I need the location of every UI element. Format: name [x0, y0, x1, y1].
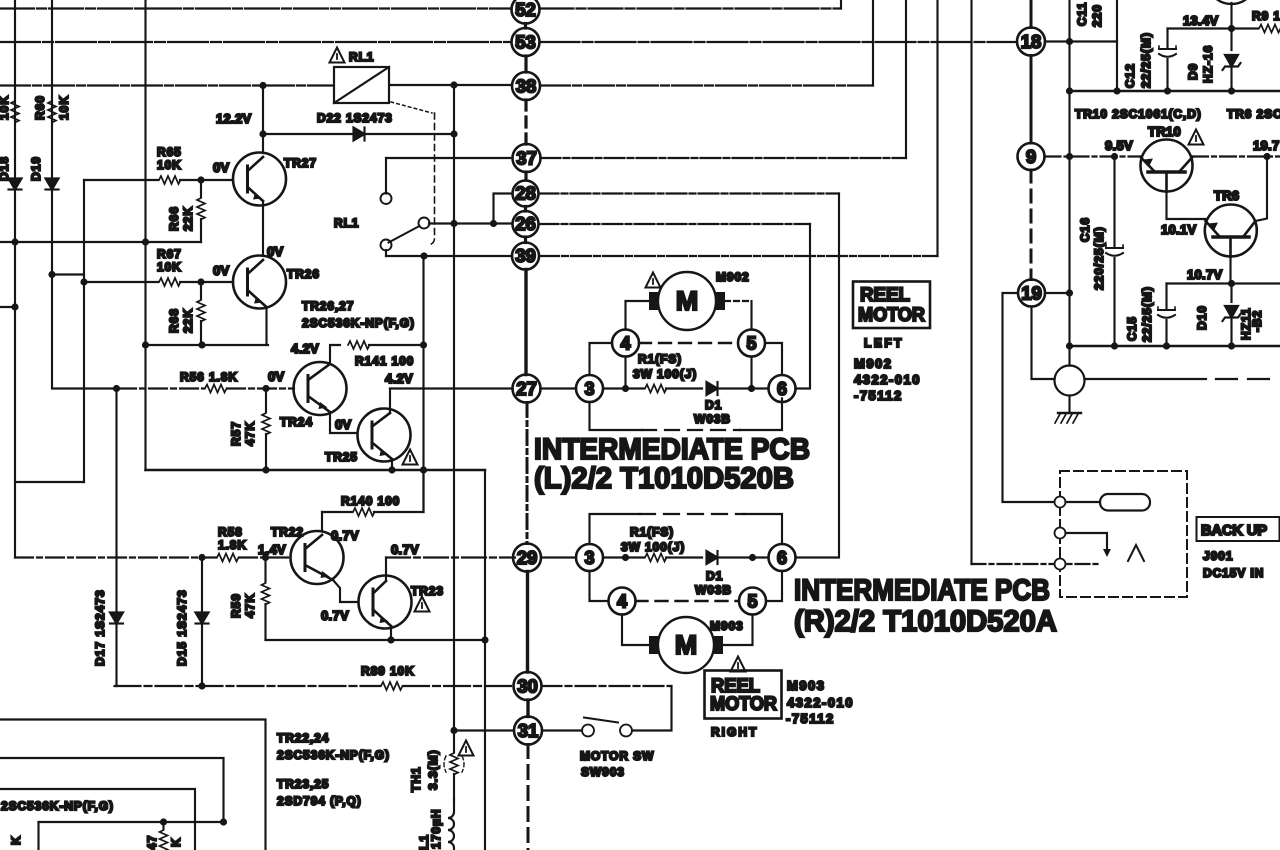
wire row 28 vertical down to R motor terminal 6 [796, 194, 840, 558]
wire x=423 vertical switch to R140 [422, 256, 424, 512]
wire vertical x=84 R65 rail down [83, 180, 85, 482]
svg-text:3W 100(J): 3W 100(J) [621, 540, 685, 554]
motor switch arm [584, 718, 618, 723]
svg-text:(L)2/2 T1010D520B: (L)2/2 T1010D520B [534, 462, 794, 495]
BACK UP label box [1197, 517, 1280, 541]
svg-text:-75112: -75112 [786, 711, 835, 726]
wire row 26 from relay common to circle 26 [429, 222, 513, 224]
svg-text:2SD794 (P,Q): 2SD794 (P,Q) [277, 794, 362, 808]
svg-text:TR23,25: TR23,25 [277, 777, 329, 791]
bus circle 38 [512, 72, 540, 100]
rail y=283.5 [1167, 282, 1280, 284]
svg-text:0.7V: 0.7V [321, 608, 349, 623]
bus circle 31 [514, 717, 542, 745]
svg-text:D10: D10 [1195, 305, 1209, 330]
junction dot 1069,346 [1066, 342, 1073, 349]
resistor R57 vertical [265, 389, 267, 413]
junction dot 202,345 [198, 341, 205, 348]
capacitor C12 [1159, 46, 1176, 57]
svg-text:13.4V: 13.4V [1183, 13, 1219, 28]
svg-text:-B2: -B2 [1250, 310, 1264, 332]
wire D1 to 6 (L) [717, 387, 769, 389]
resistor R1(FS) R [645, 554, 667, 562]
svg-text:M903: M903 [787, 678, 826, 693]
svg-text:D19: D19 [29, 156, 43, 181]
junction dot 625.5,557.5 [622, 554, 629, 561]
wire row 38 right to corner [540, 84, 873, 86]
bus link 38-37 dashed [524, 100, 527, 144]
svg-text:R141 100: R141 100 [355, 354, 414, 368]
wire row 37 from relay contact to circle 37 [386, 157, 513, 159]
wire D17 column [115, 389, 117, 687]
wire R1 to D1 (R) [666, 556, 702, 558]
svg-text:220: 220 [1090, 4, 1104, 27]
capacitor C15 upper lead [1165, 284, 1167, 309]
junction dot 625.5,388.5 [622, 385, 629, 392]
svg-text:3: 3 [584, 548, 594, 568]
resistor R1(FS) L [645, 385, 667, 393]
bus circle 53 [512, 28, 540, 56]
wire row 37 corner up to top edge [905, 0, 907, 158]
svg-text:MOTOR SW: MOTOR SW [580, 749, 654, 763]
wire row 27 TR25 collector corner to circle 27 [390, 387, 513, 389]
wire D9 to bus [1230, 66, 1232, 91]
bus circle 29 [513, 544, 541, 572]
junction dot 454,85 [450, 81, 457, 88]
wire rail y=242 R66 bottom [0, 241, 201, 243]
wire ground circle to earth [1068, 396, 1070, 414]
svg-text:TR22: TR22 [271, 525, 304, 539]
transistor TR27 [233, 153, 286, 206]
svg-text:10K: 10K [157, 260, 182, 274]
wire row 27 left dash segment [118, 387, 294, 389]
REEL MOTOR left label box [853, 282, 930, 329]
wire M902 right down to 5 [750, 301, 752, 330]
wire horizontal link y=482 [15, 481, 84, 483]
wire row 31 dot to circle 31 [455, 729, 514, 731]
row 9 wire to TR10 [1045, 155, 1142, 157]
warning triangle TH1 [459, 741, 474, 756]
svg-text:TR25: TR25 [325, 450, 358, 464]
resistor R141 [348, 341, 370, 349]
wire left column D18 [14, 0, 16, 558]
zener diode D9 [1223, 55, 1241, 70]
terminal circle 4 (R) [609, 588, 636, 615]
svg-text:LEFT: LEFT [864, 336, 904, 350]
junction dot 423,470 [420, 466, 427, 473]
wire row 38 corner up to top edge [872, 0, 874, 86]
capacitor C12 hang line [1166, 29, 1168, 48]
wire contact to row 37 [385, 158, 387, 194]
svg-text:1.8K: 1.8K [218, 538, 247, 552]
svg-text:TR10: TR10 [1148, 124, 1181, 139]
wire lower contact to row 39 [385, 250, 387, 256]
svg-text:4: 4 [617, 592, 627, 612]
wire 4 down to left brush (R) [622, 615, 649, 646]
junction dot 117,388.5 [113, 385, 120, 392]
svg-text:5: 5 [746, 334, 756, 354]
diode D17 [110, 613, 123, 624]
ground node circle [1055, 366, 1085, 396]
wire 4 down to row 27 [624, 357, 626, 389]
svg-text:9.5V: 9.5V [1105, 138, 1133, 153]
svg-text:47K: 47K [243, 421, 257, 446]
junction dot 1231.5,283.5 [1228, 280, 1235, 287]
terminal circle 5 (L) [738, 330, 765, 357]
svg-text:W03B: W03B [694, 412, 731, 426]
bypass bottom right (L) [740, 399, 782, 431]
junction dot 392,470 [388, 466, 395, 473]
svg-text:0.7V: 0.7V [391, 542, 419, 557]
svg-text:REEL: REEL [860, 285, 910, 306]
junction dot 1231.5,346 [1228, 342, 1235, 349]
wire row 52 right to corner [540, 7, 842, 9]
svg-text:0V: 0V [335, 417, 352, 432]
svg-text:W03B: W03B [695, 583, 732, 597]
wire TR25 emitter down to rail 470 [391, 459, 393, 470]
transistor cut at top edge [1207, 0, 1257, 4]
bottom-left box rail B [0, 758, 224, 822]
bus circle 39 [512, 243, 539, 270]
capacitor C16 [1106, 245, 1123, 256]
battery fuse element [1066, 501, 1101, 503]
warning triangle TR10 [1189, 130, 1204, 145]
motor M903 left brush [649, 636, 658, 654]
dotted mechanical link from relay [391, 102, 432, 113]
wire node 28 link down to row 26 [494, 194, 513, 225]
junction dot 1070,41.5 [1066, 38, 1073, 45]
wire TR23 collector up to row 29 [385, 558, 387, 582]
terminal circle 4 (L) [612, 330, 639, 357]
svg-text:TR6: TR6 [1214, 188, 1239, 203]
bus link 27-29 dash-dot [526, 403, 529, 544]
junction dot 752.5,557.5 [749, 554, 756, 561]
wire 5 down to row 27 [750, 357, 752, 389]
wire 19 down to ground circle [1032, 307, 1055, 380]
transistor TR24 [294, 362, 347, 415]
bottom-left rail D [39, 821, 224, 823]
junction dot 15,307 [11, 303, 18, 310]
svg-text:M: M [675, 630, 698, 660]
wire x=485 vertical down [484, 470, 486, 850]
wire row 27 circle 27 to circle 3 [541, 387, 577, 389]
bus circle 37 [513, 144, 541, 172]
thermistor TH1 side dashes [444, 756, 464, 772]
wire row 37 right to corner [541, 157, 907, 159]
dashed link 4-5 (L) [639, 342, 738, 344]
svg-text:9: 9 [1026, 146, 1036, 167]
wire top transistor to D9 [1230, 3, 1232, 50]
junction dot 1231.5,28.5 [1228, 25, 1235, 32]
warning triangle M902 [646, 273, 661, 288]
junction dot 15,242 [11, 238, 18, 245]
resistor at 163.5 bottom [162, 822, 164, 829]
relay switch NC contact upper [381, 193, 392, 204]
wire row 30 right to corner above motor switch [542, 685, 672, 687]
wire row 53 to circle 18 [540, 41, 1018, 43]
junction dot 1267,156.5 [1263, 153, 1270, 160]
capacitor C15 lower lead [1165, 320, 1167, 346]
diode D15 [196, 613, 209, 624]
wire TR27 emitter to TR26 collector [262, 201, 264, 255]
zener diode D10 [1230, 284, 1232, 303]
svg-text:0V: 0V [213, 263, 230, 278]
resistor R140 rail [322, 511, 352, 513]
svg-text:K: K [9, 835, 23, 845]
bus link 28-26 [524, 207, 527, 212]
resistor R67 rail [84, 281, 158, 283]
wire D1 to 6 (R) [717, 556, 769, 558]
warning triangle TR23 [415, 597, 430, 612]
resistor R58 rail row29 [217, 554, 239, 562]
bus link 26-39 [524, 237, 527, 243]
svg-text:C12: C12 [1123, 63, 1137, 88]
junction dot 424,256 [420, 252, 427, 259]
wire row 29 circle 29 to circle 3 [541, 556, 576, 558]
svg-text:3.3(M): 3.3(M) [426, 749, 440, 790]
wire TR25 collector up to row 27 [389, 389, 391, 414]
junction dot 202,557.5 [198, 554, 205, 561]
wire row 52 left bus [0, 7, 512, 9]
transistor TR22 [291, 531, 344, 584]
bypass top right (R) [744, 514, 782, 544]
bus link 39-27 solid [524, 270, 527, 375]
wire D22 rail y=134 [263, 133, 454, 135]
junction dot 1167.5,91 [1164, 87, 1171, 94]
svg-text:D15 1S2473: D15 1S2473 [175, 589, 189, 666]
svg-text:M902: M902 [716, 270, 750, 284]
relay RL1 coil diagonal [334, 67, 389, 103]
terminal circle 6 (R) [769, 544, 796, 571]
svg-text:TH1: TH1 [409, 766, 423, 792]
motor M902 right brush [716, 292, 725, 310]
junction dot 201,282 [197, 278, 204, 285]
svg-text:D17 1S2473: D17 1S2473 [93, 589, 107, 666]
terminal circle 5 (R) [739, 588, 766, 615]
rail y=640 TR23 emitter [266, 639, 486, 641]
junction dot 493.5,223.5 [490, 220, 497, 227]
svg-text:19: 19 [1021, 283, 1042, 304]
bus circle 52 [512, 0, 540, 24]
svg-text:10K: 10K [157, 158, 182, 172]
dashed mechanical link vertical [428, 113, 435, 245]
svg-text:22/25(M): 22/25(M) [1139, 32, 1153, 88]
wire M902 left brush to terminal 4 [626, 301, 650, 330]
svg-text:10.7V: 10.7V [1187, 267, 1223, 282]
svg-text:TR26: TR26 [287, 267, 320, 281]
bus circle 30 [514, 672, 542, 700]
wire 12.2V node vertical [262, 86, 264, 154]
svg-text:0V: 0V [268, 369, 285, 384]
wire TR10 collector down to TR6 base [1167, 192, 1206, 220]
wire TR24 collector up to R141 [330, 345, 340, 364]
right bus circle 18 [1017, 28, 1045, 56]
junction dot 202,686 [198, 682, 205, 689]
svg-text:M902: M902 [854, 356, 893, 371]
wire row 39 right to corner [539, 255, 938, 257]
dashed link 4-5 (R) [636, 600, 740, 602]
svg-text:30: 30 [517, 676, 538, 697]
svg-text:J901: J901 [1203, 549, 1233, 563]
wire row 38 left bus [0, 84, 332, 86]
wire row 52 corner up to top edge [840, 0, 842, 9]
bus link 37-28 [524, 172, 527, 180]
svg-text:DC15V IN: DC15V IN [1203, 566, 1264, 580]
bypass bottom (L) [590, 402, 643, 430]
resistor on left edge column [11, 101, 19, 123]
svg-text:R56 1.8K: R56 1.8K [180, 370, 238, 384]
svg-text:R1(FS): R1(FS) [630, 525, 674, 539]
power bus y=91 [1070, 90, 1280, 93]
svg-text:27: 27 [516, 378, 537, 399]
svg-text:52: 52 [515, 0, 536, 20]
junction dot 423,345 [420, 341, 427, 348]
junction dot 1166.5,346 [1163, 342, 1170, 349]
wire 3 to R1 (L) [603, 387, 644, 389]
J901 pin 1 [1055, 497, 1066, 508]
svg-text:TR23: TR23 [411, 584, 444, 598]
thermistor TH1 [453, 728, 455, 752]
wire above 18 [1030, 0, 1033, 28]
wire TR22 emitter to TR23 base [333, 580, 358, 602]
svg-text:170µH: 170µH [429, 808, 443, 849]
wire TR26 emitter down to rail [265, 307, 267, 345]
row 9 right segment [1192, 155, 1280, 157]
svg-text:53: 53 [515, 32, 536, 53]
svg-text:10K: 10K [0, 95, 11, 120]
svg-text:C15: C15 [1125, 316, 1139, 341]
bus link 53-38 [524, 56, 527, 72]
resistor R66 vertical [200, 180, 202, 197]
wire 3 down to 4 (R) [590, 571, 609, 601]
junction dot 1114.5,156.5 [1111, 153, 1118, 160]
junction dot 454,134 [450, 130, 457, 137]
inductor L1 coil [448, 800, 454, 850]
svg-text:D1: D1 [706, 569, 723, 583]
junction dot 265.5,557.5 [262, 554, 269, 561]
junction dot 263,134 [259, 130, 266, 137]
svg-text:4322-010: 4322-010 [854, 372, 921, 387]
motor M902 body [658, 272, 716, 330]
svg-text:28: 28 [515, 183, 536, 204]
svg-text:R9 1: R9 1 [1252, 9, 1280, 23]
wire row 39 corner up to top edge [936, 0, 938, 256]
transistor TR23 [359, 576, 412, 629]
bus link 18-9 [1030, 56, 1033, 144]
svg-text:RL1: RL1 [349, 50, 374, 64]
svg-text:31: 31 [518, 720, 539, 741]
svg-text:MOTOR: MOTOR [710, 694, 777, 715]
warning triangle TR25 [403, 450, 418, 465]
svg-text:18: 18 [1021, 31, 1042, 52]
svg-text:TR22,24: TR22,24 [277, 731, 329, 745]
svg-text:D9: D9 [1186, 63, 1200, 80]
svg-text:R60: R60 [33, 95, 47, 120]
terminal circle 3 (L) [576, 375, 603, 402]
svg-text:TR24: TR24 [280, 415, 313, 429]
wire TR23 emitter down [390, 626, 392, 640]
wire rail y=345 TR26 emitter rail [146, 344, 269, 346]
motor M903 right brush [714, 636, 723, 654]
junction dot 163.5,822 [160, 818, 167, 825]
diode D1 L [707, 382, 718, 395]
earth ground symbol [1058, 412, 1081, 414]
svg-text:4322-010: 4322-010 [787, 695, 854, 710]
wire 5 to 6 (R) [766, 571, 782, 601]
svg-text:6: 6 [777, 548, 787, 568]
transistor TR6 [1205, 205, 1257, 258]
junction dot 146,242 [142, 238, 149, 245]
svg-text:220/25(M): 220/25(M) [1092, 226, 1106, 290]
svg-text:5: 5 [747, 592, 757, 612]
bus circle 28 [513, 181, 539, 207]
wire 3 to R1 (R) [603, 556, 644, 558]
bus below 31 dashed [527, 745, 530, 850]
wire terminal 5 right to 6 (L) [765, 343, 782, 375]
wire TR22 collector up [321, 512, 323, 531]
wire TR6 emitter down [1229, 257, 1231, 284]
wire row 29 TR23 collector to circle 29 [386, 556, 515, 558]
svg-text:RIGHT: RIGHT [711, 725, 758, 739]
motor M903 body [658, 617, 714, 673]
svg-text:37: 37 [516, 148, 537, 169]
svg-text:R57: R57 [229, 421, 243, 446]
bottom-left box rail C [0, 789, 195, 850]
diode D18 [9, 179, 22, 190]
svg-text:R66: R66 [167, 206, 181, 231]
bypass top dashed (R) [640, 513, 744, 515]
svg-text:BACK UP: BACK UP [1201, 523, 1267, 539]
wire row 31 circle to switch contact [542, 729, 582, 731]
transistor TR25 [358, 409, 411, 462]
bus circle 27 [513, 375, 541, 403]
junction dot 266,470 [262, 466, 269, 473]
svg-text:39: 39 [515, 245, 536, 266]
junction dot 84,282 [80, 278, 87, 285]
junction dot 1070,156.5 [1066, 153, 1073, 160]
capacitor C12 lower lead [1166, 59, 1168, 91]
svg-text:TR6 2SC: TR6 2SC [1227, 107, 1280, 121]
wire x=1070 main vertical [1068, 0, 1070, 366]
motor M902 left brush [649, 292, 658, 310]
wire motor switch right leg [632, 686, 672, 731]
wire D19 link to R67 rail [52, 273, 84, 275]
wire row 29 left dash segment [15, 556, 291, 558]
diode D1 R [707, 551, 718, 564]
wire vertical x=145.5 from top [144, 0, 146, 470]
wire 19 right to ground bus [1045, 292, 1070, 294]
svg-text:TR26,27: TR26,27 [302, 299, 354, 313]
warning triangle at RL1 [330, 48, 345, 63]
transistor TR26 [233, 256, 286, 309]
svg-text:C11: C11 [1075, 2, 1089, 26]
svg-text:22K: 22K [181, 206, 195, 231]
capacitor C15 [1158, 307, 1175, 318]
svg-text:RL1: RL1 [334, 216, 359, 230]
svg-text:47: 47 [145, 835, 159, 850]
svg-text:29: 29 [517, 547, 538, 568]
wire TR6 collector up to row 9 [1256, 157, 1268, 222]
svg-text:SW903: SW903 [581, 765, 625, 779]
svg-text:D22 1S2473: D22 1S2473 [317, 111, 393, 125]
svg-text:M: M [676, 286, 699, 316]
wire row 28 right to corner [539, 192, 840, 194]
junction dot 1070,91 [1066, 87, 1073, 94]
svg-text:HZ-16: HZ-16 [1201, 45, 1215, 83]
wire M902 right brush to terminal 5 dashed [725, 300, 752, 302]
plug wire with arrow [1066, 533, 1108, 550]
rail y=470 emitter bus [146, 469, 486, 472]
